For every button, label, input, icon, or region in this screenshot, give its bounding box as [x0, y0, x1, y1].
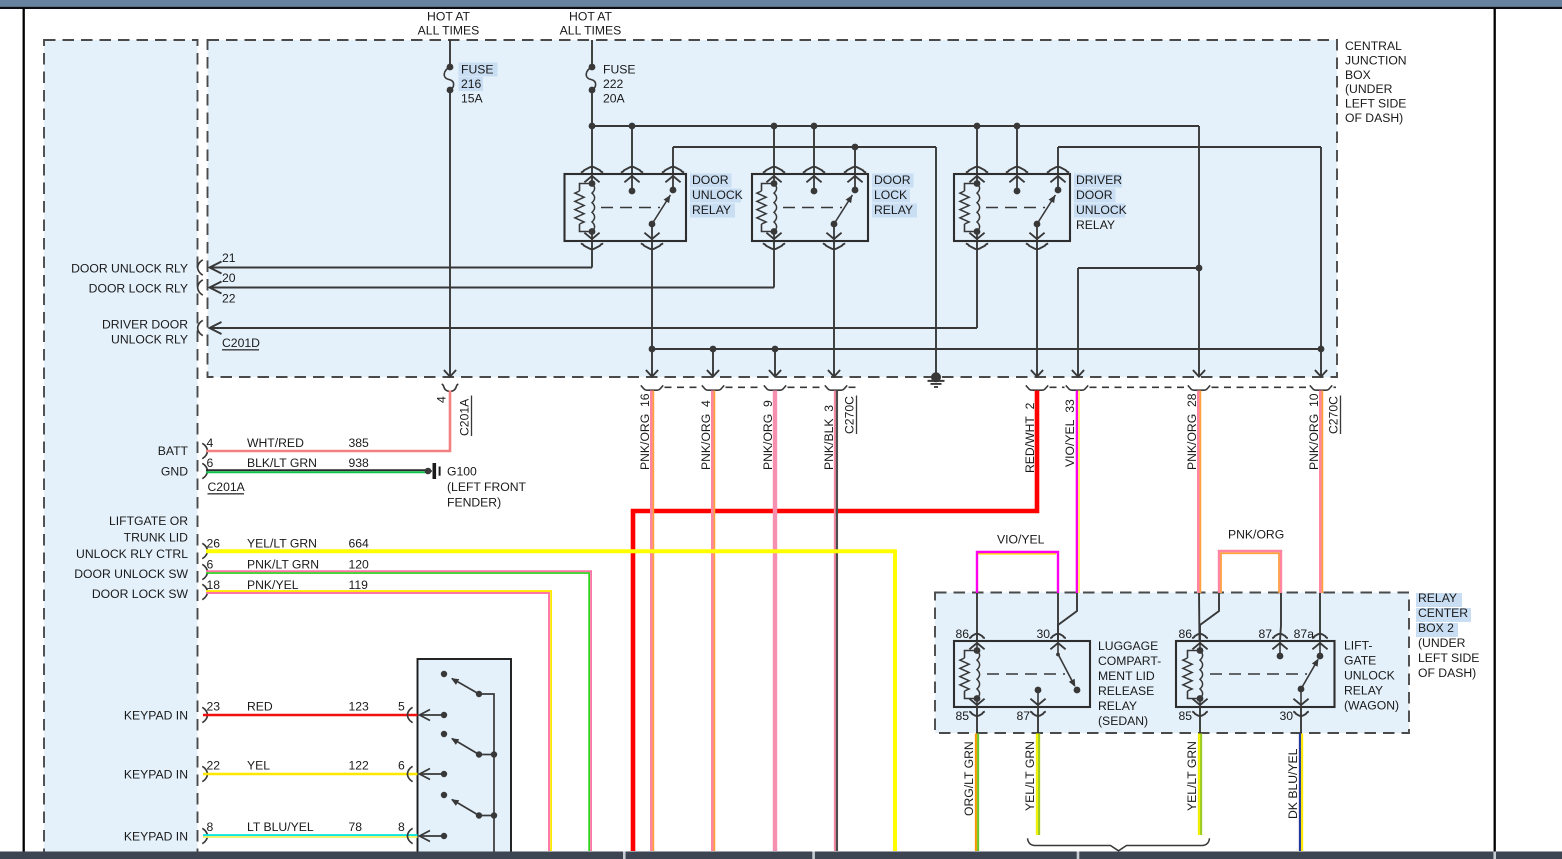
svg-text:CENTRAL: CENTRAL: [1345, 39, 1402, 53]
junction dot bus2 relay2 pin3: [852, 144, 859, 151]
svg-text:ALL TIMES: ALL TIMES: [560, 23, 622, 37]
keypad switch3 bus link: [479, 815, 494, 817]
svg-text:938: 938: [349, 456, 370, 470]
svg-text:86: 86: [1178, 627, 1192, 641]
keypad switch 3: [441, 792, 482, 819]
wire PNK/ORG 4 vertical: [712, 391, 714, 852]
fuse F216 15A: [444, 40, 456, 377]
junction dot bus1 relay3 pin2: [1014, 123, 1021, 130]
svg-text:BATT: BATT: [158, 444, 189, 458]
svg-text:15A: 15A: [461, 92, 484, 106]
svg-text:VIO/YEL: VIO/YEL: [997, 533, 1045, 547]
wire YEL/LT GRN vertical (wagon 85): [1199, 734, 1201, 836]
svg-text:LEFT SIDE: LEFT SIDE: [1345, 97, 1406, 111]
svg-text:DOOR LOCK SW: DOOR LOCK SW: [92, 587, 189, 601]
connector pin dip at x=1321: [1310, 385, 1332, 390]
underbrace grouping YEL/LT GRN wires: [1028, 838, 1210, 851]
svg-text:UNLOCK: UNLOCK: [692, 188, 743, 202]
keypad switch2 bus link: [479, 754, 494, 756]
svg-text:CENTER: CENTER: [1418, 606, 1468, 620]
svg-text:87: 87: [1016, 709, 1030, 723]
wire VIO/YEL 33 vertical: [1077, 391, 1079, 594]
svg-text:C201A: C201A: [458, 398, 472, 436]
connector pin dip at x=775: [764, 385, 786, 390]
connector label C201A (rotated): [458, 396, 472, 437]
svg-text:85: 85: [955, 709, 969, 723]
svg-text:BLK/LT GRN: BLK/LT GRN: [247, 456, 317, 470]
svg-text:4: 4: [435, 396, 449, 403]
svg-text:RELAY: RELAY: [692, 203, 731, 217]
wire into relay5 pin 87a: [1319, 593, 1321, 641]
svg-text:RELAY: RELAY: [1076, 218, 1115, 232]
svg-text:18: 18: [207, 578, 221, 592]
svg-text:DOOR: DOOR: [692, 173, 729, 187]
wire PNK/ORG 10 vertical: [1320, 391, 1322, 594]
svg-text:DOOR UNLOCK SW: DOOR UNLOCK SW: [74, 567, 188, 581]
svg-text:86: 86: [955, 627, 969, 641]
keypad connector parens: [407, 707, 412, 843]
keypad switch 2: [441, 731, 482, 758]
unlock sw wire annotation: [207, 558, 370, 572]
wire RED 123 (keypad in): [203, 714, 418, 717]
wire PNK/ORG 16 vertical: [651, 391, 653, 852]
relay K3 DRIVER DOOR UNLOCK RELAY: [954, 167, 1070, 249]
svg-text:ORG/LT GRN: ORG/LT GRN: [962, 741, 976, 816]
svg-text:PNK/ORG 10: PNK/ORG 10: [1307, 393, 1321, 470]
bottom dark bar: [0, 852, 1562, 859]
wire YEL 122 (keypad in): [203, 773, 418, 776]
svg-text:LIFT-: LIFT-: [1344, 639, 1372, 653]
wire jumper right leg into relay5 pin 87: [1280, 593, 1281, 641]
bottom bar separator 1: [623, 852, 626, 859]
svg-text:23: 23: [207, 700, 221, 714]
top bar bottom rule: [0, 7, 1562, 9]
wire DK BLU/YEL vertical: [1300, 734, 1302, 852]
keypad bus dot a: [491, 751, 497, 757]
svg-text:6: 6: [207, 456, 214, 470]
connector pin dip at x=1037: [1026, 385, 1048, 390]
keypad bus corner: [479, 694, 494, 859]
svg-text:(WAGON): (WAGON): [1344, 699, 1399, 713]
relay K1 DOOR UNLOCK RELAY: [565, 167, 687, 249]
svg-text:OF DASH): OF DASH): [1418, 666, 1476, 680]
svg-text:HOT AT: HOT AT: [427, 9, 470, 23]
connector label C270C right (rotated): [1327, 396, 1341, 435]
connector label C201D: [222, 336, 260, 350]
svg-text:LOCK: LOCK: [874, 188, 907, 202]
svg-text:BOX 2: BOX 2: [1418, 621, 1454, 635]
left connector panel (light blue dashed box): [44, 40, 198, 859]
svg-text:87: 87: [1258, 627, 1272, 641]
wire PNK/BLK 3 vertical: [835, 391, 837, 852]
svg-text:6: 6: [207, 558, 214, 572]
junction dot bus1 relay2 pin2: [811, 123, 818, 130]
svg-text:DRIVER: DRIVER: [1076, 173, 1122, 187]
svg-text:664: 664: [349, 537, 370, 551]
relay box 2 bottom pin wires: [977, 707, 1301, 733]
wire jumper left leg jog into relay5 pin 86: [1200, 593, 1219, 641]
svg-text:LT BLU/YEL: LT BLU/YEL: [247, 820, 314, 834]
svg-text:FENDER): FENDER): [447, 496, 501, 510]
left panel terminal labels: [71, 262, 188, 844]
wire into relay4 pin 30 (jog from VIO/YEL 33): [1058, 593, 1077, 641]
connector pin dip at x=1199: [1188, 385, 1210, 390]
junction dot bus349 b: [710, 346, 717, 353]
svg-text:4: 4: [207, 436, 214, 450]
central junction box (light blue dashed box): [208, 40, 1338, 377]
svg-text:385: 385: [349, 436, 370, 450]
junction dot bus349 c: [772, 346, 779, 353]
svg-text:MENT LID: MENT LID: [1098, 669, 1155, 683]
wire relay3 common to RED/WHT exit: [1031, 241, 1043, 377]
fuse F222 20A: [586, 40, 595, 174]
svg-text:22: 22: [222, 292, 236, 306]
junction dot bus1 relay1 pin2: [629, 123, 636, 130]
svg-text:21: 21: [222, 251, 236, 265]
wire jumper right leg into relay4 pin 30: [1057, 593, 1059, 641]
wire bus1 stub to relay2 pin1: [773, 126, 775, 174]
connector label C270C left (rotated): [843, 396, 857, 435]
svg-text:C270C: C270C: [1327, 396, 1341, 434]
wire 20 DOOR LOCK RLY control: [210, 241, 775, 294]
svg-text:HOT AT: HOT AT: [569, 9, 612, 23]
connector label C201A (left): [208, 480, 246, 494]
svg-text:DOOR UNLOCK RLY: DOOR UNLOCK RLY: [71, 262, 188, 276]
junction dot bus1 relay2 pin1: [771, 123, 778, 130]
wire PNK/ORG 9 vertical: [773, 391, 777, 852]
svg-text:8: 8: [398, 820, 405, 834]
svg-text:20A: 20A: [603, 92, 626, 106]
svg-text:(UNDER: (UNDER: [1345, 82, 1393, 96]
wire ORG/LT GRN vertical: [976, 734, 978, 852]
relay K5 pin labels: [1178, 627, 1314, 723]
wire 21 DOOR UNLOCK RLY control: [210, 241, 593, 274]
svg-text:DOOR LOCK RLY: DOOR LOCK RLY: [89, 282, 188, 296]
svg-text:KEYPAD IN: KEYPAD IN: [124, 768, 188, 782]
svg-text:RED: RED: [247, 700, 273, 714]
relay K3 label: [1076, 173, 1127, 232]
label CENTRAL JUNCTION BOX: [1345, 39, 1407, 125]
junction dot bus349 a: [649, 346, 656, 353]
svg-text:GATE: GATE: [1344, 654, 1376, 668]
svg-text:20: 20: [222, 271, 236, 285]
ground G100 label: [447, 464, 527, 509]
svg-text:UNLOCK RLY: UNLOCK RLY: [111, 332, 188, 346]
ground G402 symbol: [928, 372, 945, 387]
BATT wire annotation: [207, 436, 370, 450]
svg-text:30: 30: [1036, 627, 1050, 641]
svg-text:22: 22: [207, 759, 221, 773]
svg-text:87a: 87a: [1294, 627, 1315, 641]
svg-text:C270C: C270C: [843, 396, 857, 434]
svg-text:ALL TIMES: ALL TIMES: [418, 23, 480, 37]
wire 22 DRIVER DOOR UNLOCK RLY control: [210, 241, 978, 334]
bottom bar separator 2: [812, 852, 815, 859]
svg-text:GND: GND: [161, 464, 188, 478]
wire VIO/YEL jumper (86-30): [977, 552, 1058, 593]
svg-text:PNK/ORG 16: PNK/ORG 16: [638, 393, 652, 470]
label HOT AT ALL TIMES (fuse 216): [418, 9, 480, 37]
svg-text:26: 26: [207, 537, 221, 551]
svg-text:8: 8: [207, 820, 214, 834]
svg-text:120: 120: [349, 558, 370, 572]
svg-text:222: 222: [603, 77, 624, 91]
wire RED/WHT 2 (thick red feed): [633, 391, 1037, 852]
wire bus1 stub to relay1 pin2: [631, 126, 633, 174]
keypad yel annotation: [207, 759, 406, 773]
keypad blu annotation: [207, 820, 406, 834]
svg-text:119: 119: [349, 578, 369, 592]
svg-text:FUSE: FUSE: [603, 63, 636, 77]
top title bar: [0, 0, 1562, 7]
svg-text:KEYPAD IN: KEYPAD IN: [124, 709, 188, 723]
label HOT AT ALL TIMES (fuse 222): [560, 9, 622, 37]
left frame line: [23, 8, 25, 852]
svg-text:6: 6: [398, 759, 405, 773]
right frame line: [1494, 8, 1496, 852]
wire bus1 stub to relay3 pin2: [1016, 126, 1018, 174]
svg-text:RELEASE: RELEASE: [1098, 684, 1154, 698]
svg-text:YEL/LT GRN: YEL/LT GRN: [247, 537, 317, 551]
fuse F216 label: [461, 63, 494, 106]
svg-text:DOOR: DOOR: [874, 173, 911, 187]
svg-text:YEL/LT GRN: YEL/LT GRN: [1185, 741, 1199, 811]
wire power bus from fuse 222: [592, 126, 1205, 377]
ground G100 symbol: [425, 463, 441, 479]
svg-text:DK BLU/YEL: DK BLU/YEL: [1286, 748, 1300, 819]
wire PNK/ORG jumper (86-87): [1219, 551, 1281, 593]
connector pin dip at x=713: [702, 385, 724, 390]
svg-text:PNK/LT GRN: PNK/LT GRN: [247, 558, 319, 572]
GND wire annotation: [207, 456, 370, 470]
svg-text:UNLOCK: UNLOCK: [1344, 669, 1395, 683]
svg-text:LUGGAGE: LUGGAGE: [1098, 639, 1158, 653]
left panel connector half-circles: [198, 260, 208, 844]
svg-text:(LEFT FRONT: (LEFT FRONT: [447, 480, 527, 494]
junction dot fuse222/bus: [589, 123, 596, 130]
svg-text:123: 123: [349, 700, 370, 714]
svg-text:DOOR: DOOR: [1076, 188, 1113, 202]
svg-text:WHT/RED: WHT/RED: [247, 436, 304, 450]
svg-text:RELAY: RELAY: [1344, 684, 1383, 698]
relay K4 pin labels: [955, 627, 1050, 723]
wire unlock output bus: [646, 241, 1321, 377]
svg-text:30: 30: [1279, 709, 1293, 723]
svg-text:PNK/ORG 9: PNK/ORG 9: [761, 400, 775, 470]
wire BLK/LT GRN 938 (GND): [206, 470, 428, 472]
svg-text:KEYPAD IN: KEYPAD IN: [124, 830, 188, 844]
svg-text:JUNCTION: JUNCTION: [1345, 53, 1407, 67]
keypad red annotation: [207, 700, 406, 714]
svg-text:FUSE: FUSE: [461, 63, 494, 77]
relay K2 label highlight: [872, 174, 914, 188]
svg-text:122: 122: [349, 759, 370, 773]
wire YEL/LT GRN 664 (liftgate unlock ctrl): [206, 551, 895, 851]
keypad bus dot b: [491, 812, 497, 818]
svg-text:G100: G100: [447, 464, 477, 478]
keypad row 6 arrow: [420, 769, 448, 780]
relay center box 2 (light blue dashed box): [935, 593, 1409, 734]
connector pin dip at x=836: [825, 385, 847, 390]
svg-text:UNLOCK: UNLOCK: [1076, 203, 1127, 217]
junction dot bus349 d: [1318, 346, 1325, 353]
svg-text:TRUNK LID: TRUNK LID: [124, 531, 189, 545]
svg-text:5: 5: [398, 700, 405, 714]
wire PNK/LT GRN 120 (door unlock sw): [206, 571, 591, 851]
relay K5 label: [1344, 639, 1399, 713]
connector pin dip at x=652: [641, 385, 663, 390]
connector pin dip at x=1077: [1066, 385, 1088, 390]
wire bus1 stub to relay3 pin1: [976, 126, 978, 174]
svg-text:DRIVER DOOR: DRIVER DOOR: [102, 317, 188, 331]
svg-text:RELAY: RELAY: [874, 203, 913, 217]
wire into relay5 pin 86 (PNK/ORG 28): [1198, 593, 1201, 641]
wire bus2 right segment: [1058, 147, 1327, 377]
wire branch to VIO/YEL exit: [1072, 268, 1199, 377]
keypad row 5 arrow: [420, 710, 448, 721]
wire relay2 common to PNK/BLK exit: [828, 241, 840, 377]
label RELAY CENTER BOX 2: [1418, 591, 1479, 680]
connector strip C270C dashed line: [665, 386, 1337, 388]
svg-text:PNK/YEL: PNK/YEL: [247, 578, 299, 592]
wire into relay4 pin 86: [976, 593, 978, 641]
wire bus2 left segment: [673, 147, 936, 377]
relay K2 DOOR LOCK RELAY: [752, 167, 868, 249]
svg-text:UNLOCK RLY CTRL: UNLOCK RLY CTRL: [76, 547, 188, 561]
wire WHT/RED 385 (BATT feed): [206, 391, 450, 452]
svg-text:C201D: C201D: [222, 336, 260, 350]
bottom bar separator 3: [1077, 852, 1080, 859]
svg-text:OF DASH): OF DASH): [1345, 111, 1403, 125]
relay K1 label highlight: [690, 174, 732, 188]
svg-text:YEL: YEL: [247, 759, 270, 773]
wire bus1 stub to relay2 pin2: [813, 126, 815, 174]
svg-text:78: 78: [349, 820, 363, 834]
wire LT BLU/YEL 78 (keypad in): [203, 835, 418, 837]
svg-text:VIO/YEL 33: VIO/YEL 33: [1063, 399, 1077, 467]
svg-text:(UNDER: (UNDER: [1418, 636, 1466, 650]
label RELAY CENTER BOX 2 highlight: [1416, 593, 1462, 607]
fuse F222 label: [603, 63, 636, 106]
svg-text:YEL/LT GRN: YEL/LT GRN: [1023, 741, 1037, 811]
svg-text:RELAY: RELAY: [1098, 699, 1137, 713]
svg-text:PNK/BLK 3: PNK/BLK 3: [822, 405, 836, 470]
svg-text:LEFT SIDE: LEFT SIDE: [1418, 651, 1479, 665]
svg-text:COMPART-: COMPART-: [1098, 654, 1161, 668]
svg-text:RELAY: RELAY: [1418, 591, 1457, 605]
svg-text:PNK/ORG: PNK/ORG: [1228, 528, 1284, 542]
relay K4 label: [1098, 639, 1161, 728]
keypad row 8 arrow: [420, 831, 448, 842]
keypad switch 1: [441, 671, 482, 697]
svg-text:PNK/ORG 28: PNK/ORG 28: [1185, 393, 1199, 470]
wire YEL/LT GRN vertical (sedan 87): [1037, 734, 1039, 836]
junction dot bus1 relay3 pin1: [974, 123, 981, 130]
relay K5 LIFTGATE UNLOCK RELAY: [1176, 634, 1335, 716]
junction dot bus1 branch: [1196, 265, 1203, 272]
liftgate wire annotation: [207, 537, 370, 551]
svg-text:PNK/ORG 4: PNK/ORG 4: [699, 400, 713, 470]
svg-text:216: 216: [461, 77, 482, 91]
relay K2 label: [874, 173, 913, 217]
wire PNK/YEL 119 (door lock sw): [206, 591, 551, 851]
lock sw wire annotation: [207, 578, 369, 592]
connector cup C201A (fuse 216 output): [442, 384, 459, 391]
bottom bar separator 4: [1493, 852, 1496, 859]
relay K1 label: [692, 173, 743, 217]
wire PNK/ORG 28 vertical: [1198, 391, 1200, 594]
svg-text:LIFTGATE OR: LIFTGATE OR: [109, 514, 188, 528]
svg-text:C201A: C201A: [208, 480, 246, 494]
svg-text:BOX: BOX: [1345, 68, 1371, 82]
relay K4 LUGGAGE COMPARTMENT LID RELEASE RELAY: [954, 634, 1090, 716]
svg-text:85: 85: [1178, 709, 1192, 723]
fuse F216 label highlight: [459, 63, 498, 77]
relay K3 label highlight: [1074, 174, 1122, 188]
keypad connector box: [418, 659, 512, 859]
svg-text:(SEDAN): (SEDAN): [1098, 714, 1148, 728]
